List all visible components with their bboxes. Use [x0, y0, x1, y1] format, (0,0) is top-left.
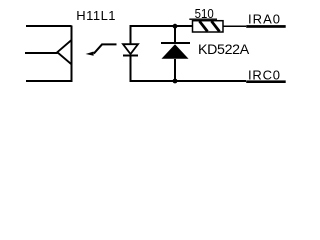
wire bottom net (LED cathode to IRC0)	[130, 80, 247, 82]
resistor R1 body	[193, 21, 224, 32]
diode D1 label KD522A	[198, 42, 250, 58]
wire diode D1 anode vertical	[174, 59, 176, 81]
svg-text:IRA0: IRA0	[248, 12, 280, 27]
wire LED anode vertical	[130, 25, 132, 44]
wire resistor to net IRA0	[223, 25, 246, 27]
resistor R1 label 510	[195, 6, 214, 21]
optocoupler U1 label H11L1	[76, 8, 115, 23]
svg-text:H11L1: H11L1	[76, 8, 115, 23]
net IRA0 thick underline	[246, 25, 286, 28]
net IRC0 thick underline	[246, 80, 286, 83]
resistor R1 label underline	[189, 19, 217, 20]
diode D1 cathode bar	[161, 42, 190, 44]
optical coupling arrow	[86, 44, 117, 55]
wire U1 detector output pin (middle)	[25, 52, 58, 54]
junction dot top	[173, 24, 178, 29]
wire top net (LED anode to resistor)	[130, 25, 193, 27]
net label IRC0	[248, 67, 280, 82]
wire U1 detector top pin	[26, 25, 72, 27]
wire U1 detector bottom pin	[26, 80, 72, 82]
wire diode D1 cathode vertical	[174, 26, 176, 43]
U1 photodetector triangle	[57, 40, 71, 64]
junction dot bottom	[173, 79, 178, 84]
net label IRA0	[248, 12, 280, 27]
U1 LED triangle	[123, 44, 138, 54]
resistor R1 hatch slash 2	[212, 21, 220, 31]
wire U1 detector base vertical	[71, 25, 73, 82]
svg-text:IRC0: IRC0	[248, 67, 280, 82]
resistor R1 hatch slash 1	[200, 21, 208, 31]
diode D1 triangle (filled)	[162, 44, 189, 59]
U1 LED cathode bar	[123, 55, 138, 57]
svg-text:KD522A: KD522A	[198, 42, 250, 58]
wire LED cathode vertical	[130, 56, 132, 81]
